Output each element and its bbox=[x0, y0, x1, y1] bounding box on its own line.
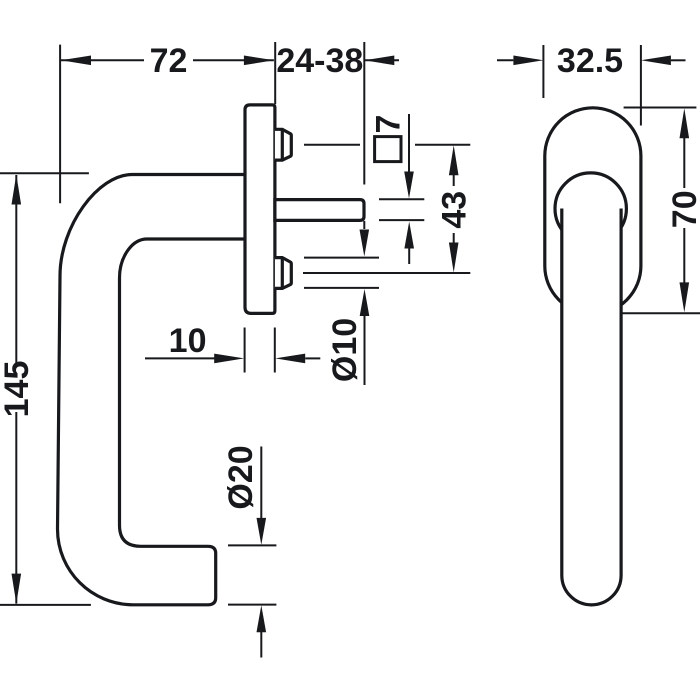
dimension 24-38 extension line left bbox=[274, 42, 276, 104]
svg-text:43: 43 bbox=[436, 191, 474, 229]
handle collar circle front view bbox=[555, 173, 626, 244]
svg-text:7: 7 bbox=[369, 115, 407, 134]
dimension 10 line with arrows bbox=[145, 354, 320, 364]
dimension O10 arrow up (from below) bbox=[360, 289, 370, 385]
dimension 72 line bbox=[61, 56, 274, 66]
svg-text:Ø20: Ø20 bbox=[222, 445, 260, 509]
hole bottom tick (lower screw) bbox=[304, 287, 379, 289]
dimension 145 line with arrows bbox=[12, 175, 22, 604]
dimension O20 arrow lower bbox=[257, 605, 267, 657]
dimension 145 extension line bottom bbox=[0, 604, 91, 606]
handle grip front view bbox=[562, 209, 621, 605]
dimension 70 top tick bbox=[624, 107, 697, 109]
dimension 145 extension line top bbox=[0, 172, 89, 174]
dimension 32.5 extension line left bbox=[542, 45, 544, 98]
dimension 32.5 extension line right bbox=[640, 45, 642, 126]
rosette plate side view bbox=[245, 105, 275, 314]
rosette front view (stadium) bbox=[545, 108, 641, 314]
dimension 24-38 extension line right bbox=[363, 42, 365, 185]
svg-text:24-38: 24-38 bbox=[276, 42, 363, 80]
screw lower bbox=[275, 258, 291, 289]
dimension 70 bottom tick bbox=[621, 312, 700, 314]
svg-text:Ø10: Ø10 bbox=[326, 318, 364, 382]
spindle square shaft bbox=[275, 200, 364, 221]
screw upper bbox=[275, 129, 291, 160]
dimension 72 extension line left bbox=[59, 45, 61, 204]
svg-text:72: 72 bbox=[150, 42, 188, 80]
hole top tick (lower screw) bbox=[304, 257, 379, 259]
dimension 10 extension lines bbox=[245, 328, 275, 373]
dimension 24-38 arrow right (outside) bbox=[364, 56, 399, 66]
spindle bottom tick bbox=[379, 219, 424, 221]
dimension O20 bottom tick bbox=[228, 604, 276, 606]
svg-text:32.5: 32.5 bbox=[557, 42, 623, 80]
dimension 32.5 arrow right (outside) bbox=[641, 56, 686, 66]
dimension O20 arrow upper bbox=[257, 447, 267, 545]
dimension 43 line with arrows bbox=[449, 145, 459, 272]
screw center tick lower bbox=[303, 272, 470, 274]
screw center tick upper bbox=[304, 144, 470, 146]
svg-text:10: 10 bbox=[169, 322, 207, 360]
dimension O20 top tick bbox=[228, 544, 276, 546]
dimension 32.5 arrow left (outside) bbox=[497, 56, 543, 66]
svg-text:145: 145 bbox=[0, 361, 36, 418]
dimension 24-38 ext arrow down (to hole top) bbox=[360, 221, 370, 257]
dimension 7 leader lower bbox=[404, 222, 414, 265]
dimension 7 leader upper bbox=[404, 114, 414, 199]
spindle top tick bbox=[379, 198, 424, 200]
dimension 70 line with arrows bbox=[680, 108, 690, 312]
dimension 7 square symbol bbox=[375, 137, 401, 162]
svg-text:70: 70 bbox=[666, 190, 700, 228]
handle side-view outline bbox=[58, 175, 247, 605]
